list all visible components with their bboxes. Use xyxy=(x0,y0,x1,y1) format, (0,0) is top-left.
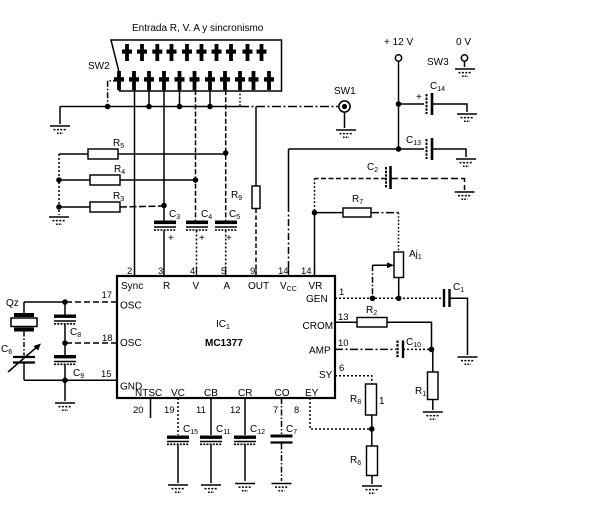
wiper arrow into Aj1 xyxy=(373,264,391,266)
wire: C2 right to ground xyxy=(391,179,465,191)
wire: VR column pin 14 xyxy=(314,213,316,276)
terminal +12V xyxy=(395,55,401,61)
svg-text:0 V: 0 V xyxy=(456,37,471,48)
svg-text:5: 5 xyxy=(221,266,226,277)
svg-text:SW2: SW2 xyxy=(88,61,110,72)
svg-text:20: 20 xyxy=(133,405,144,416)
wire: R7 right to Aj1 top xyxy=(371,212,399,214)
svg-text:14: 14 xyxy=(278,266,289,277)
wire: +12V rail xyxy=(398,61,400,149)
node: R8/R6 junction xyxy=(369,426,375,432)
wire: SW2 pin1 jog to ground bus xyxy=(108,81,119,107)
ground (0V) xyxy=(455,69,475,76)
ground (C2) xyxy=(455,192,475,199)
ground (R1) xyxy=(423,412,443,419)
svg-text:15: 15 xyxy=(101,369,112,380)
wire: C1 to ground xyxy=(450,298,468,355)
resistor R1 xyxy=(428,372,439,400)
SW1 output connector xyxy=(339,101,350,112)
svg-text:OSC: OSC xyxy=(120,301,142,312)
wire: GEN pin 1 line xyxy=(335,297,443,299)
node: VR/R7 junction xyxy=(312,210,318,216)
resistor R9 xyxy=(252,186,260,209)
ground (C13) xyxy=(456,159,476,166)
svg-text:R: R xyxy=(163,281,170,292)
wire: R6 to ground xyxy=(371,476,373,485)
wire: R9 column up to video line xyxy=(255,107,257,187)
node: GEN Aj1 xyxy=(396,296,402,302)
ground (bus left) xyxy=(50,126,70,133)
capacitor C4 xyxy=(186,209,212,276)
node: C13 junction xyxy=(396,146,402,152)
svg-text:CR: CR xyxy=(238,388,252,399)
wire: R3 right xyxy=(120,206,164,207)
node: bus dot 3 xyxy=(177,104,183,110)
svg-text:14: 14 xyxy=(301,266,312,277)
wire: C9 bottom lead xyxy=(64,365,66,402)
node: bus dot 4 xyxy=(207,104,213,110)
svg-text:1: 1 xyxy=(339,287,344,298)
svg-text:17: 17 xyxy=(102,290,113,301)
wire: R signal column xyxy=(163,90,165,221)
wire: C10 to node xyxy=(403,348,432,350)
wire: pin 8 EY to resistor junction xyxy=(310,398,372,429)
wire: 0V to ground xyxy=(464,61,466,67)
svg-text:+: + xyxy=(416,92,422,103)
svg-text:OSC: OSC xyxy=(120,338,142,349)
capacitor C13 xyxy=(406,135,432,160)
svg-text:VR: VR xyxy=(309,281,323,292)
trimmer Aj1 xyxy=(394,252,404,278)
terminal 0V xyxy=(461,55,467,61)
wire: video out line to SW1 xyxy=(240,106,338,108)
node: osc mid xyxy=(62,340,68,346)
svg-text:+: + xyxy=(168,233,174,244)
capacitor C15 xyxy=(167,398,198,483)
SW2 bottom row pins xyxy=(114,71,274,90)
svg-text:12: 12 xyxy=(230,405,241,416)
svg-text:CB: CB xyxy=(204,388,218,399)
ground bus wire xyxy=(60,106,240,108)
resistor R2 xyxy=(357,318,387,328)
node: bus dot 2 xyxy=(146,104,152,110)
wire: SW2 video pin drop to output line xyxy=(239,90,241,107)
svg-text:9: 9 xyxy=(250,266,255,277)
svg-text:Qz: Qz xyxy=(6,298,19,309)
svg-text:Sync: Sync xyxy=(121,281,143,292)
ground (C11) xyxy=(201,485,221,492)
ground (SW1) xyxy=(336,130,356,137)
capacitor C9 xyxy=(54,355,84,380)
svg-text:A: A xyxy=(224,281,231,292)
svg-text:10: 10 xyxy=(338,338,349,349)
svg-text:7: 7 xyxy=(273,405,278,416)
wire: to C14 xyxy=(399,103,425,105)
wire: C13 to ground xyxy=(433,149,466,157)
wire: bus left drop to ground xyxy=(59,107,61,125)
wire: C8 bottom lead xyxy=(64,324,66,355)
wire: R5 right xyxy=(118,153,226,155)
wire: to C13 xyxy=(399,148,425,150)
variable capacitor C6 xyxy=(1,344,41,381)
ground (C15) xyxy=(168,485,188,492)
ground (C7) xyxy=(272,484,292,491)
wire: R2 right down to node xyxy=(387,322,432,349)
svg-text:2: 2 xyxy=(127,266,132,277)
svg-text:1: 1 xyxy=(379,396,385,407)
svg-text:+: + xyxy=(226,233,232,244)
node: R4/V column xyxy=(193,177,199,183)
wire: R8 to junction xyxy=(371,415,373,446)
capacitor C14 xyxy=(416,81,445,115)
node: gnd line xyxy=(62,378,68,384)
svg-text:6: 6 xyxy=(339,363,344,374)
ground (C14) xyxy=(457,114,477,121)
resistor R5 xyxy=(88,149,118,159)
ground (C1) xyxy=(458,357,478,364)
svg-text:EY: EY xyxy=(305,388,319,399)
node: R3/R column xyxy=(161,203,167,209)
SCART connector SW2 outline xyxy=(111,40,282,91)
svg-text:CO: CO xyxy=(275,388,290,399)
capacitor C11 xyxy=(200,398,231,483)
SW2 top row pins xyxy=(122,44,267,61)
wire: node to R7 xyxy=(315,212,344,214)
wire: termination rail xyxy=(58,154,60,215)
resistor R3 xyxy=(90,202,120,212)
svg-text:V: V xyxy=(193,281,200,292)
wire: node to R1 xyxy=(432,349,434,372)
node: rail R4 xyxy=(56,177,62,183)
node: bus dot 1 xyxy=(105,104,111,110)
svg-text:18: 18 xyxy=(102,333,113,344)
wire: R4 right xyxy=(120,179,196,181)
svg-text:SY: SY xyxy=(319,370,333,381)
wire: R9 down to pin 9 xyxy=(255,209,257,277)
ground (R6) xyxy=(362,486,382,493)
svg-text:+ 12 V: + 12 V xyxy=(384,37,414,48)
IC top pin ticks xyxy=(135,267,315,276)
resistor R8 xyxy=(366,384,377,415)
svg-text:AMP: AMP xyxy=(309,346,331,357)
wire: R5 left xyxy=(59,153,88,155)
wire: sync column SW2 to pin 2 xyxy=(134,90,136,276)
capacitor C10 xyxy=(398,337,422,358)
svg-text:SW3: SW3 xyxy=(427,57,449,68)
resistor R4 xyxy=(90,175,120,185)
capacitor C8 xyxy=(54,315,81,340)
svg-text:VC: VC xyxy=(171,388,185,399)
IC1 MC1377 body xyxy=(117,276,335,398)
wire: R4 left xyxy=(59,179,90,181)
svg-text:OUT: OUT xyxy=(248,281,269,292)
ground (oscillator) xyxy=(55,403,75,410)
svg-text:+: + xyxy=(199,233,205,244)
crystal Qz xyxy=(6,298,37,356)
svg-text:11: 11 xyxy=(196,405,206,416)
capacitor C2 xyxy=(367,162,391,189)
wire: pin 20 stub xyxy=(150,398,152,418)
wire: V signal column xyxy=(195,90,197,221)
capacitor C7 xyxy=(271,398,298,481)
wire: pin 17 to crystal xyxy=(24,301,65,303)
wire: Aj1 bottom to GEN line xyxy=(398,278,400,299)
capacitor C12 xyxy=(234,398,265,481)
svg-text:Entrada R, V. A y sincronismo: Entrada R, V. A y sincronismo xyxy=(132,23,264,34)
svg-text:NTSC: NTSC xyxy=(135,388,162,399)
svg-text:19: 19 xyxy=(164,405,175,416)
svg-text:8: 8 xyxy=(294,405,299,416)
ground (termination rail) xyxy=(49,217,69,224)
svg-text:SW1: SW1 xyxy=(334,86,356,97)
wire: C2 left to VR node xyxy=(315,178,387,180)
wire: C6 bottom to pin15 line xyxy=(24,379,65,381)
wire: SW1 to ground xyxy=(344,112,346,128)
wire: C14 to ground xyxy=(433,104,467,112)
node: R5/A column xyxy=(223,150,229,156)
svg-text:GEN: GEN xyxy=(306,294,328,305)
node: rail R3 xyxy=(56,204,62,210)
svg-text:MC1377: MC1377 xyxy=(205,338,243,349)
wire: SW2 ground pin drops xyxy=(149,90,210,107)
capacitor C5 xyxy=(215,209,240,276)
node: osc top xyxy=(62,299,68,305)
capacitor C3 xyxy=(154,209,180,276)
wire: wiper down to GEN line xyxy=(372,265,374,298)
wire: R3 left xyxy=(59,206,90,208)
resistor R7 xyxy=(343,208,371,217)
svg-text:CROM: CROM xyxy=(303,321,334,332)
wire: Vcc feed line xyxy=(289,148,399,150)
svg-text:4: 4 xyxy=(190,266,195,277)
node: R1 top xyxy=(429,347,435,353)
node: C14 junction xyxy=(396,101,402,107)
resistor R6 xyxy=(367,446,378,476)
IC left pin stubs xyxy=(65,302,117,380)
ground (C12) xyxy=(235,484,255,491)
svg-text:3: 3 xyxy=(158,266,163,277)
wire: Vcc column pin 14 xyxy=(288,149,290,205)
wire: R1 to ground xyxy=(432,400,434,411)
svg-text:13: 13 xyxy=(338,312,349,323)
wire: AMP pin 10 to C10 xyxy=(335,348,396,350)
wire: C8 top lead xyxy=(64,302,66,315)
wire: A signal column xyxy=(225,90,227,221)
node: GEN wiper xyxy=(370,296,376,302)
capacitor C1 xyxy=(444,282,464,307)
wire: SY pin 6 to R8 xyxy=(335,376,372,384)
wire: CROM pin 13 to R2 xyxy=(335,321,357,323)
